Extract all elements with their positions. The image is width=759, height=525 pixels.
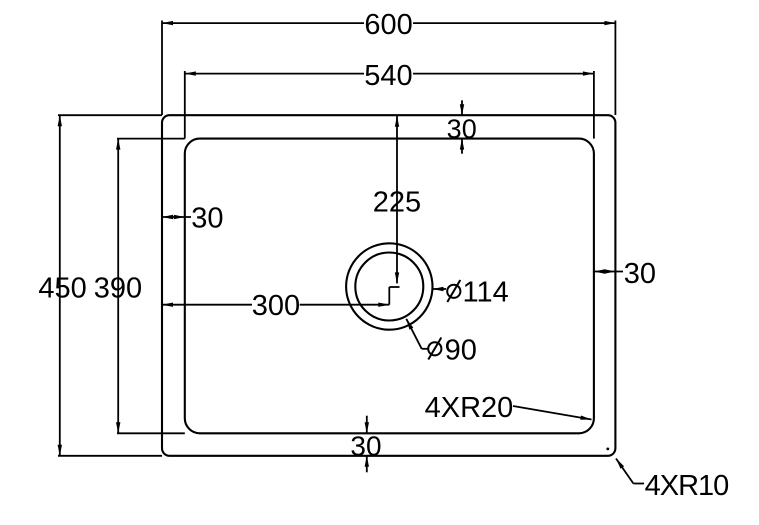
label D114 leader <box>433 287 447 291</box>
dimension 450 <box>38 115 162 456</box>
center step mark <box>389 287 399 305</box>
inner hole circle D90 <box>355 253 423 321</box>
dimension 540 <box>185 60 594 139</box>
svg-text:450: 450 <box>38 272 86 304</box>
outer hole circle D114 <box>346 243 432 329</box>
dimension 30 bottom <box>350 416 381 473</box>
label 4XR20 <box>425 392 592 424</box>
label D114 text <box>447 277 509 309</box>
dimension 30 top <box>447 100 477 153</box>
label 4XR10 <box>606 448 728 502</box>
svg-text:30: 30 <box>624 258 656 290</box>
svg-text:90: 90 <box>445 334 477 366</box>
svg-text:30: 30 <box>191 202 223 234</box>
inner basin rectangle 540x390 R20 <box>185 139 594 434</box>
svg-text:30: 30 <box>447 114 477 144</box>
svg-text:30: 30 <box>350 431 381 462</box>
outer plate rectangle 600x450 R10 <box>162 115 615 456</box>
label D90 text <box>428 334 477 366</box>
svg-text:390: 390 <box>94 272 142 304</box>
svg-text:4XR20: 4XR20 <box>425 392 514 424</box>
svg-text:4XR10: 4XR10 <box>645 470 729 502</box>
dimension 30 right <box>594 258 656 290</box>
dimension 30 left <box>162 202 224 234</box>
svg-text:300: 300 <box>252 290 300 322</box>
dimension 300 <box>162 290 389 322</box>
svg-text:225: 225 <box>373 186 421 218</box>
dimension 600 <box>162 9 615 115</box>
dimension 225 <box>373 116 421 284</box>
dimension 390 <box>94 139 185 434</box>
svg-text:540: 540 <box>364 60 412 92</box>
label D90 leader <box>406 319 428 349</box>
svg-text:600: 600 <box>364 9 412 41</box>
svg-text:114: 114 <box>463 277 509 309</box>
